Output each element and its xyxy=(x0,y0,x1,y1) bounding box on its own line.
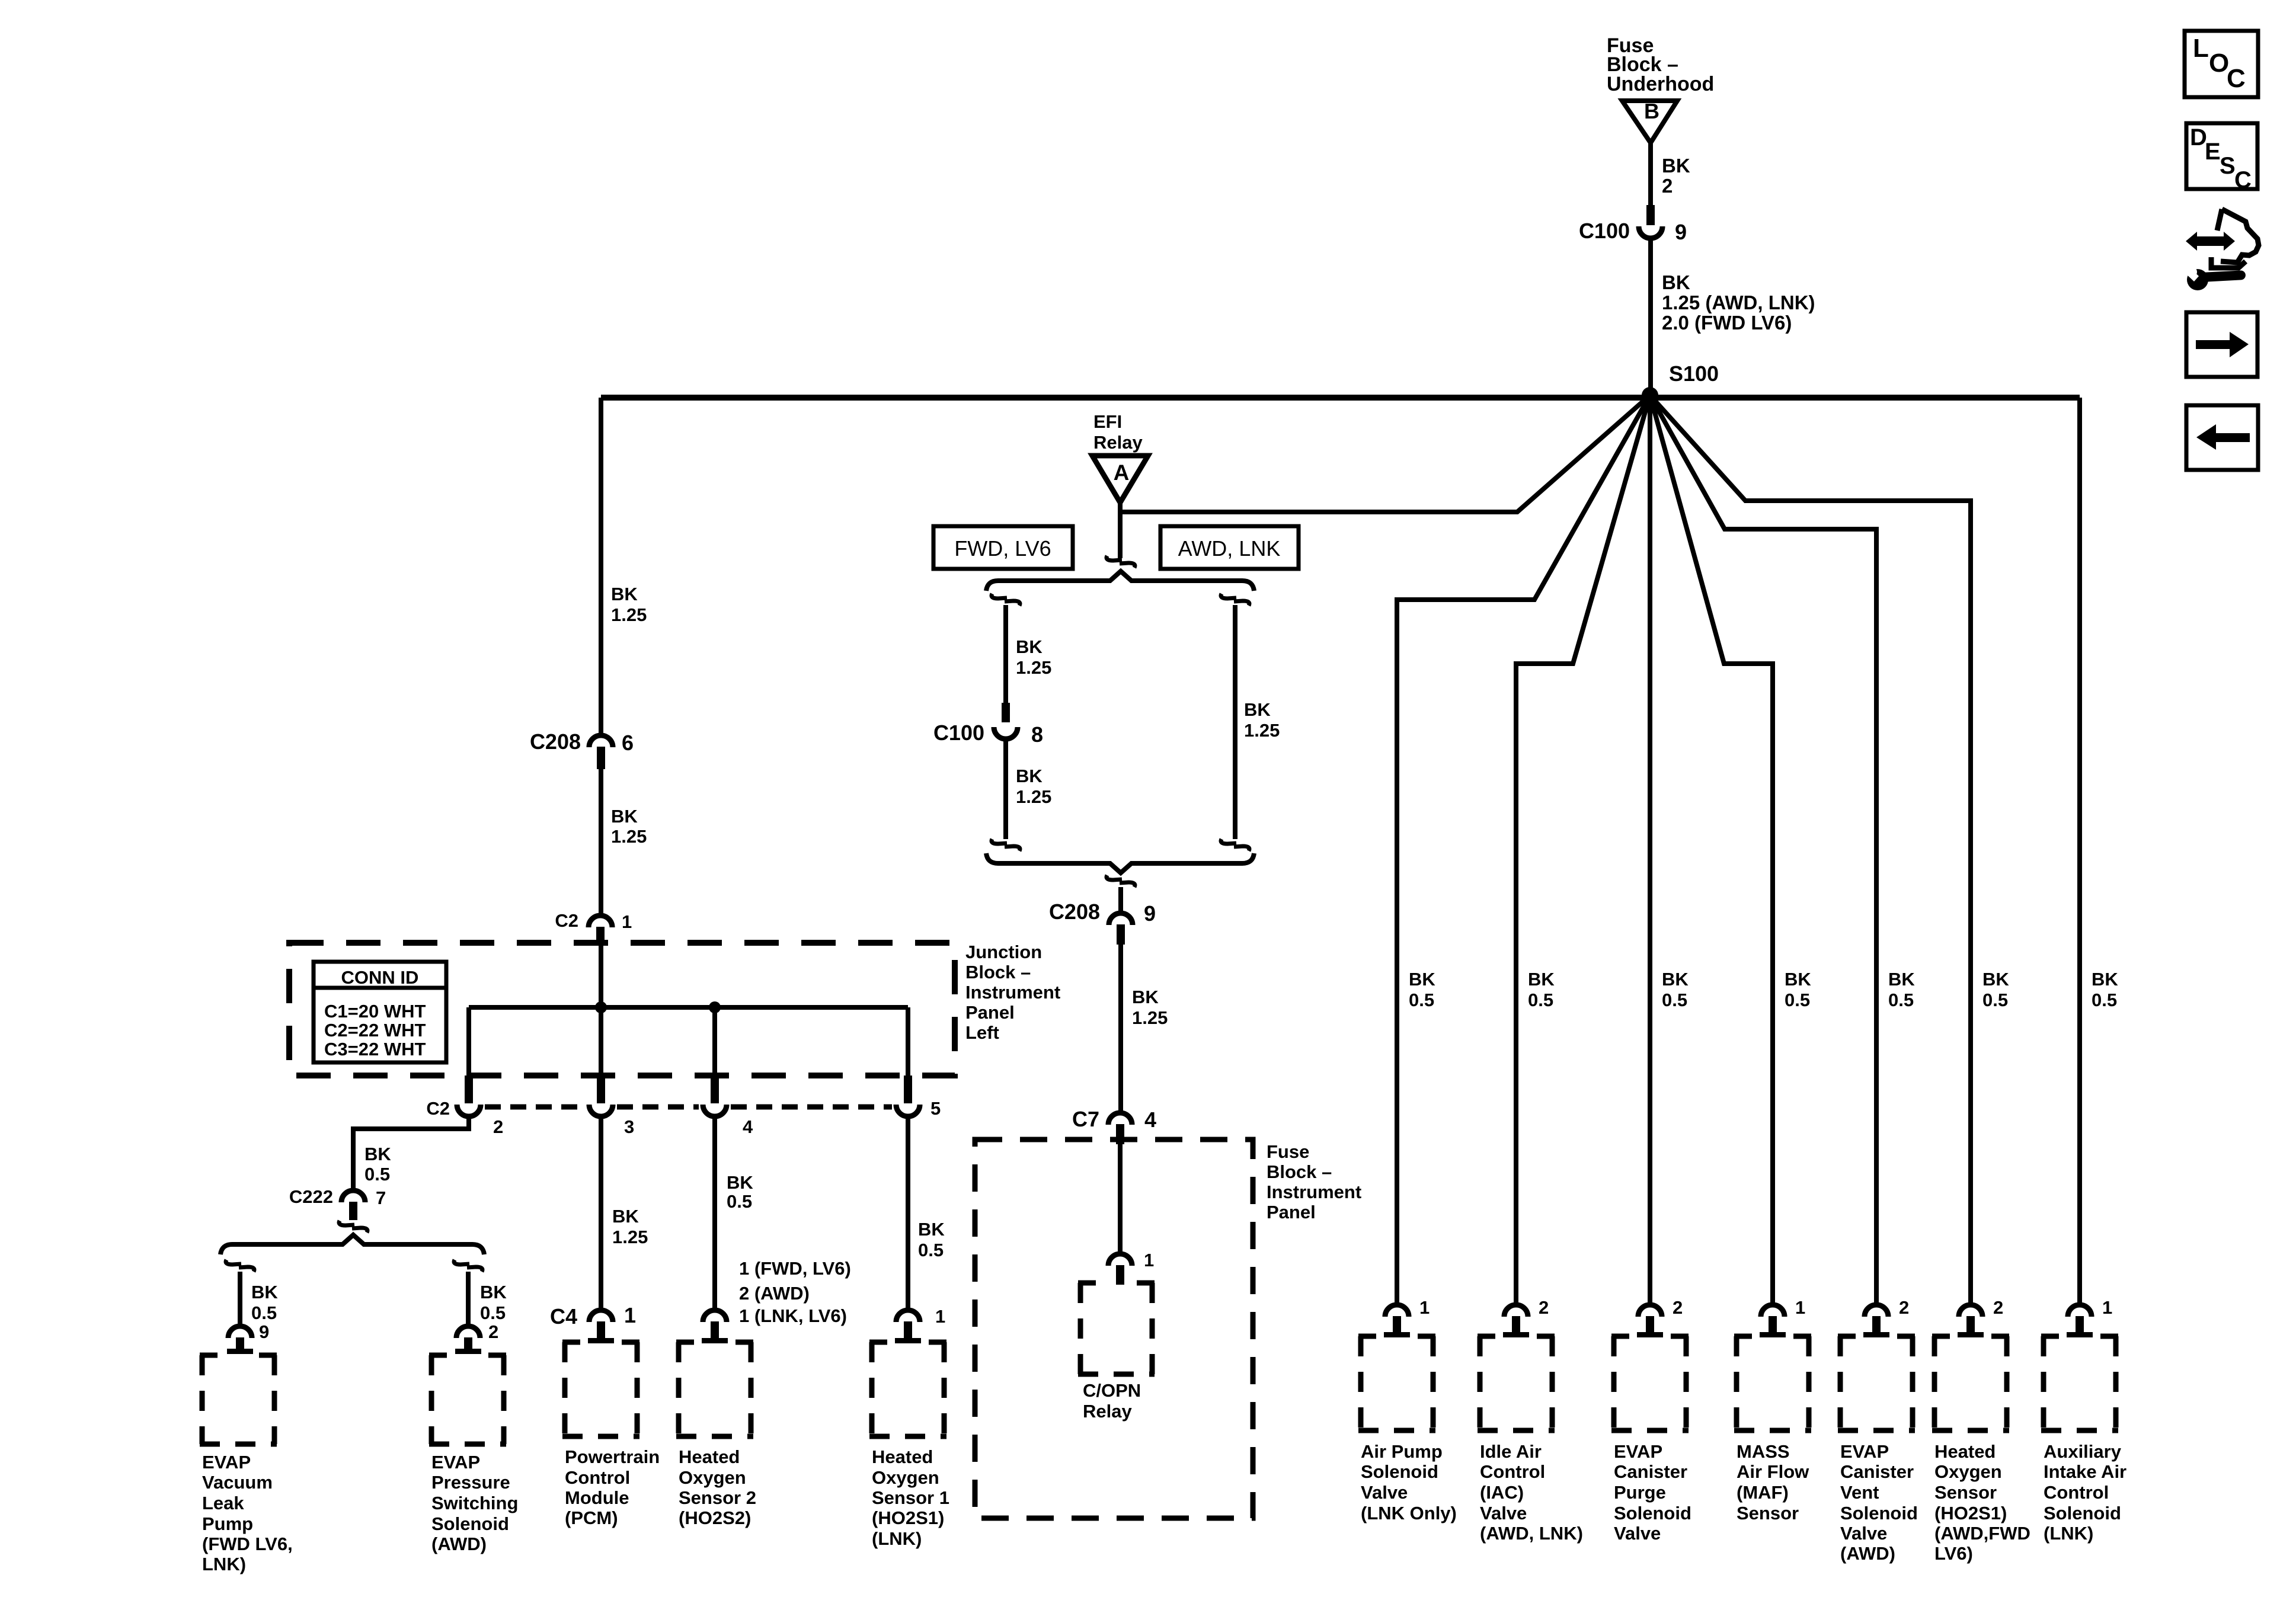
wire label BK 0.5 9 xyxy=(251,1282,278,1342)
label EVAP Pressure Switching Solenoid xyxy=(431,1452,518,1554)
svg-text:BK: BK xyxy=(611,584,638,604)
svg-text:Instrument: Instrument xyxy=(965,982,1060,1003)
connector pin 1 col 3509 xyxy=(2067,1297,2112,1337)
svg-text:Solenoid: Solenoid xyxy=(1614,1503,1691,1523)
pin 5 xyxy=(930,1098,941,1119)
svg-text:Purge: Purge xyxy=(1614,1482,1666,1503)
wire C100-9 to S100, BK 1.25/2.0 xyxy=(1648,241,1653,395)
svg-text:(IAC): (IAC) xyxy=(1480,1482,1524,1503)
svg-text:C7: C7 xyxy=(1072,1107,1099,1131)
svg-text:LNK): LNK) xyxy=(202,1554,246,1574)
EVAP vacuum leak pump box xyxy=(200,1355,277,1444)
connector C7 pin 4 xyxy=(1072,1107,1156,1144)
wire label BK 0.5 HO2S1 xyxy=(918,1219,945,1260)
wire label BK 0.5 col 3509 xyxy=(2092,969,2118,1010)
svg-text:B: B xyxy=(1644,99,1659,123)
wire label BK 1.25 below C208-6 xyxy=(611,806,647,847)
svg-text:2: 2 xyxy=(488,1321,498,1342)
label C2 of row xyxy=(426,1098,450,1119)
wire label BK 1.25 FWD lower xyxy=(1016,766,1051,807)
svg-text:(AWD): (AWD) xyxy=(431,1534,487,1554)
svg-text:Panel: Panel xyxy=(1267,1202,1316,1222)
junction node at x1014 xyxy=(595,1001,607,1013)
connector pin 2 col 2784 xyxy=(1637,1297,1683,1337)
wire C7-4 to relay coil xyxy=(1118,1144,1123,1253)
wire label BK 0.5 col 2558 xyxy=(1528,969,1555,1010)
component box col 3166 xyxy=(1838,1336,1915,1430)
wire C2-5 to HO2S1 xyxy=(906,1119,910,1308)
svg-text:7: 7 xyxy=(376,1188,386,1208)
wire relay A down to option marker xyxy=(1118,502,1123,558)
connector C100 pin 8 xyxy=(933,703,1043,747)
icon box LOC xyxy=(2185,31,2258,97)
svg-text:5: 5 xyxy=(930,1098,941,1119)
connector HO2S1 pin 1 xyxy=(895,1306,945,1343)
svg-text:BK: BK xyxy=(1785,969,1811,990)
connector C4 pin 1 xyxy=(550,1303,636,1343)
svg-text:BK: BK xyxy=(1016,636,1043,657)
HO2S1 box xyxy=(869,1342,946,1436)
wire C208-9 to C7-4 xyxy=(1118,945,1123,1112)
icon wrench with arrows xyxy=(2183,209,2259,290)
wire S100 to IAC column xyxy=(1516,395,1650,1305)
svg-text:Control: Control xyxy=(1480,1461,1545,1482)
alternatives brace top xyxy=(986,571,1254,591)
wire label BK 0.5 HO2S2 xyxy=(727,1172,753,1212)
svg-text:Junction: Junction xyxy=(965,942,1042,962)
svg-text:BK: BK xyxy=(1409,969,1435,990)
svg-text:0.5: 0.5 xyxy=(1528,990,1553,1010)
svg-text:Sensor 1: Sensor 1 xyxy=(872,1487,949,1508)
svg-text:BK: BK xyxy=(480,1282,507,1302)
connector C208 pin 9 xyxy=(1049,900,1156,945)
option marker above C208-9 xyxy=(1107,875,1135,887)
connector EVAP pump pin 9 xyxy=(227,1326,253,1354)
svg-text:Powertrain: Powertrain xyxy=(565,1446,660,1467)
svg-text:C2=22 WHT: C2=22 WHT xyxy=(324,1020,426,1041)
svg-text:Underhood: Underhood xyxy=(1607,73,1714,95)
svg-text:C3=22 WHT: C3=22 WHT xyxy=(324,1039,426,1060)
svg-text:Control: Control xyxy=(2044,1482,2109,1503)
connector pin 2 col 2558 xyxy=(1503,1297,1549,1337)
svg-text:Pressure: Pressure xyxy=(431,1472,510,1493)
svg-text:4: 4 xyxy=(1144,1108,1156,1132)
svg-text:A: A xyxy=(1114,460,1130,485)
off-page triangle B (Fuse Block - Underhood) xyxy=(1622,99,1677,143)
svg-text:BK: BK xyxy=(1016,766,1043,786)
svg-text:Relay: Relay xyxy=(1083,1401,1132,1422)
svg-text:(LNK): (LNK) xyxy=(2044,1523,2093,1544)
wire label BK 0.5 col 2991 xyxy=(1785,969,1811,1010)
svg-text:(PCM): (PCM) xyxy=(565,1507,618,1528)
svg-text:Instrument: Instrument xyxy=(1267,1182,1361,1202)
svg-text:Heated: Heated xyxy=(679,1446,740,1467)
svg-text:BK: BK xyxy=(612,1206,639,1227)
wire S100 to C208 pin 6 xyxy=(599,398,603,734)
label Junction Block - Instrument Panel Left xyxy=(965,942,1060,1043)
component box col 2991 xyxy=(1734,1336,1811,1430)
svg-text:1.25: 1.25 xyxy=(1132,1007,1168,1028)
svg-text:Valve: Valve xyxy=(1614,1523,1661,1544)
wire C208-6 to C2-1 xyxy=(599,769,603,914)
connector C100 pin 9 xyxy=(1579,205,1687,244)
connector C2 row blade x1206 xyxy=(703,1076,727,1116)
wire label BK 1.25 to C7 xyxy=(1132,987,1168,1028)
svg-text:BK: BK xyxy=(918,1219,945,1240)
svg-text:BK: BK xyxy=(1662,155,1690,177)
svg-text:0.5: 0.5 xyxy=(1888,990,1914,1010)
svg-text:Heated: Heated xyxy=(1934,1441,1996,1462)
svg-text:Intake Air: Intake Air xyxy=(2044,1461,2126,1482)
label Heated col 3325 xyxy=(1934,1441,2030,1564)
svg-text:9: 9 xyxy=(1675,220,1687,244)
svg-text:Air Flow: Air Flow xyxy=(1737,1461,1809,1482)
svg-text:(HO2S1): (HO2S1) xyxy=(1934,1503,2007,1523)
svg-text:C4: C4 xyxy=(550,1304,577,1329)
svg-text:Sensor: Sensor xyxy=(1737,1503,1799,1523)
connector C222 pin 7 xyxy=(289,1186,386,1220)
svg-text:Control: Control xyxy=(565,1467,630,1488)
svg-text:Canister: Canister xyxy=(1840,1461,1914,1482)
option marker FWD branch bottom xyxy=(992,839,1020,851)
connector C2 pin 1 xyxy=(555,910,632,943)
dashed link of connector C2 row xyxy=(485,1105,892,1110)
svg-text:Sensor: Sensor xyxy=(1934,1482,1997,1503)
svg-text:0.5: 0.5 xyxy=(1409,990,1434,1010)
svg-text:2.0 (FWD LV6): 2.0 (FWD LV6) xyxy=(1662,312,1792,334)
connector C208 pin 6 xyxy=(530,729,634,769)
svg-text:BK: BK xyxy=(1528,969,1555,990)
svg-text:C2: C2 xyxy=(555,910,578,931)
splice brace under C222 xyxy=(220,1235,484,1254)
svg-text:S: S xyxy=(2220,153,2236,179)
svg-text:BK: BK xyxy=(2092,969,2118,990)
wire label BK 1.25 AWD xyxy=(1244,699,1280,741)
svg-text:CONN ID: CONN ID xyxy=(341,967,419,988)
wire label BK 0.5 col 2784 xyxy=(1662,969,1689,1010)
svg-text:BK: BK xyxy=(1662,271,1690,293)
svg-text:C: C xyxy=(2234,167,2252,193)
svg-text:S100: S100 xyxy=(1669,361,1719,386)
svg-text:Canister: Canister xyxy=(1614,1461,1687,1482)
svg-text:(MAF): (MAF) xyxy=(1737,1482,1789,1503)
label EVAP Vacuum Leak Pump xyxy=(202,1452,293,1574)
label Fuse Block - Underhood xyxy=(1607,34,1714,95)
label Heated Oxygen Sensor 2 (HO2S2) xyxy=(679,1446,756,1528)
off-page triangle A (EFI Relay) xyxy=(1092,456,1148,502)
svg-text:2: 2 xyxy=(1993,1297,2003,1318)
svg-text:8: 8 xyxy=(1031,722,1043,747)
wire label BK 1.25 (AWD, LNK) 2.0 (FWD LV6) xyxy=(1662,271,1815,334)
pin 3 xyxy=(624,1116,634,1137)
label EVAP col 3166 xyxy=(1840,1441,1918,1564)
svg-text:Solenoid: Solenoid xyxy=(1361,1461,1438,1482)
svg-text:EVAP: EVAP xyxy=(431,1452,480,1473)
svg-text:2: 2 xyxy=(1662,175,1673,197)
svg-text:BK: BK xyxy=(1132,987,1159,1007)
svg-text:1: 1 xyxy=(622,911,632,932)
svg-text:EVAP: EVAP xyxy=(202,1452,251,1473)
connector pin 1 col 2991 xyxy=(1760,1297,1805,1337)
svg-text:2: 2 xyxy=(1539,1297,1549,1318)
wire S100 to auxiliary column xyxy=(2077,398,2082,1305)
icon box DESC xyxy=(2186,123,2257,193)
wire S100 to air pump column xyxy=(1397,395,1650,1305)
AWD, LNK box xyxy=(1160,526,1299,569)
svg-text:1.25: 1.25 xyxy=(1016,786,1051,807)
svg-text:1 (LNK, LV6): 1 (LNK, LV6) xyxy=(739,1305,847,1326)
svg-text:1.25: 1.25 xyxy=(1244,720,1280,741)
svg-text:Sensor 2: Sensor 2 xyxy=(679,1487,756,1508)
svg-text:9: 9 xyxy=(1144,901,1156,926)
svg-text:0.5: 0.5 xyxy=(1785,990,1810,1010)
wire label BK 0.5 2 xyxy=(480,1282,507,1342)
svg-text:BK: BK xyxy=(1982,969,2009,990)
option marker AWD branch bottom xyxy=(1221,839,1249,851)
alternatives brace bottom xyxy=(986,853,1254,873)
svg-text:Valve: Valve xyxy=(1840,1523,1887,1544)
svg-text:9: 9 xyxy=(259,1321,269,1342)
HO2S2 box xyxy=(676,1342,753,1436)
connector pin 1 col 2357 xyxy=(1384,1297,1430,1337)
svg-text:Fuse: Fuse xyxy=(1267,1141,1309,1162)
bus wire from S100 left and right xyxy=(601,395,2080,401)
svg-text:1: 1 xyxy=(935,1306,945,1327)
svg-text:(HO2S1): (HO2S1) xyxy=(872,1507,944,1528)
svg-text:EVAP: EVAP xyxy=(1840,1441,1889,1462)
svg-text:Switching: Switching xyxy=(431,1493,518,1513)
wire bus drop x1206 xyxy=(712,1007,717,1076)
svg-text:BK: BK xyxy=(1888,969,1915,990)
CONN ID table xyxy=(314,962,446,1062)
svg-text:2: 2 xyxy=(1673,1297,1683,1318)
wire bus drop x1532 xyxy=(906,1007,910,1076)
icon box arrow right xyxy=(2186,312,2257,377)
label Auxiliary col 3509 xyxy=(2044,1441,2126,1544)
svg-text:Block –: Block – xyxy=(1267,1161,1332,1182)
svg-text:Pump: Pump xyxy=(202,1513,253,1534)
svg-text:2 (AWD): 2 (AWD) xyxy=(739,1283,810,1304)
component box col 3325 xyxy=(1932,1336,2009,1430)
component box col 2558 xyxy=(1478,1336,1555,1430)
svg-text:AWD, LNK: AWD, LNK xyxy=(1178,536,1281,561)
svg-text:0.5: 0.5 xyxy=(2092,990,2117,1010)
svg-text:C208: C208 xyxy=(530,729,581,754)
wire label BK 1.25 xyxy=(611,584,647,625)
svg-text:Solenoid: Solenoid xyxy=(2044,1503,2121,1523)
svg-text:0.5: 0.5 xyxy=(727,1191,752,1212)
pin list for HO2S2 xyxy=(739,1258,851,1326)
svg-text:0.5: 0.5 xyxy=(480,1302,506,1323)
svg-text:L: L xyxy=(2193,34,2209,63)
svg-text:(LNK): (LNK) xyxy=(872,1528,922,1549)
svg-text:1: 1 xyxy=(1795,1297,1805,1318)
svg-text:0.5: 0.5 xyxy=(364,1164,390,1185)
connector pin 2 col 3166 xyxy=(1863,1297,1909,1337)
svg-text:(HO2S2): (HO2S2) xyxy=(679,1507,751,1528)
svg-text:(AWD, LNK): (AWD, LNK) xyxy=(1480,1523,1583,1544)
svg-text:LV6): LV6) xyxy=(1934,1543,1973,1564)
wire to EVAP vacuum leak pump xyxy=(238,1272,242,1325)
svg-text:BK: BK xyxy=(1662,969,1689,990)
svg-text:Oxygen: Oxygen xyxy=(679,1467,746,1488)
wire label BK 2 xyxy=(1662,155,1690,197)
svg-text:Vent: Vent xyxy=(1840,1482,1879,1503)
option marker FWD branch top xyxy=(992,594,1020,606)
option marker below C222 xyxy=(339,1221,367,1233)
svg-text:1: 1 xyxy=(2102,1297,2112,1318)
connector C2 row blade x791 xyxy=(457,1076,481,1116)
svg-text:1.25: 1.25 xyxy=(611,826,647,847)
wire S100 to EFI relay column xyxy=(1121,395,1650,512)
svg-text:C: C xyxy=(2227,64,2246,93)
svg-text:Valve: Valve xyxy=(1361,1482,1408,1503)
wire label BK 0.5 col 3325 xyxy=(1982,969,2009,1010)
component box col 2784 xyxy=(1611,1336,1689,1430)
wire label BK 0.5 col 2357 xyxy=(1409,969,1435,1010)
svg-text:Solenoid: Solenoid xyxy=(431,1513,509,1534)
svg-text:BK: BK xyxy=(1244,699,1271,720)
label Powertrain Control Module (PCM) xyxy=(565,1446,660,1528)
svg-text:Block –: Block – xyxy=(965,962,1031,982)
svg-text:Panel: Panel xyxy=(965,1002,1015,1023)
wire C2-1 through bus to row xyxy=(599,943,603,1076)
pin 4 xyxy=(743,1116,753,1137)
svg-text:Relay: Relay xyxy=(1093,432,1143,453)
EVAP pressure switching solenoid box xyxy=(429,1355,506,1444)
PCM box xyxy=(562,1342,639,1436)
svg-text:BK: BK xyxy=(251,1282,278,1302)
svg-text:Module: Module xyxy=(565,1487,629,1508)
connector HO2S2 pin xyxy=(702,1310,728,1343)
label EVAP col 2784 xyxy=(1614,1441,1691,1544)
label Idle Air col 2558 xyxy=(1480,1441,1583,1544)
wire label BK 0.5 col 3166 xyxy=(1888,969,1915,1010)
svg-text:1.25: 1.25 xyxy=(611,604,647,625)
C/OPN relay box xyxy=(1078,1283,1155,1374)
svg-text:MASS: MASS xyxy=(1737,1441,1790,1462)
wire bus drop x791 xyxy=(466,1007,471,1076)
FWD, LV6 box xyxy=(933,526,1073,569)
junction block dashed outline xyxy=(289,943,955,1076)
splice S100 xyxy=(1642,387,1658,404)
wire S100 to HO2S1 column xyxy=(1650,395,1971,1305)
label C/OPN Relay xyxy=(1083,1380,1141,1422)
svg-text:1 (FWD, LV6): 1 (FWD, LV6) xyxy=(739,1258,851,1279)
wire label BK 0.5 xyxy=(364,1144,391,1185)
svg-text:Heated: Heated xyxy=(872,1446,933,1467)
svg-text:C/OPN: C/OPN xyxy=(1083,1380,1141,1401)
label EFI Relay xyxy=(1093,411,1143,453)
wire S100 to EVAP vent column xyxy=(1650,395,1876,1305)
icon box arrow left xyxy=(2186,405,2258,470)
wire to C208 pin 9 xyxy=(1118,887,1123,912)
connector pin 2 col 3325 xyxy=(1958,1297,2003,1337)
svg-text:C208: C208 xyxy=(1049,900,1100,924)
label Heated Oxygen Sensor 1 (HO2S1) (LNK) xyxy=(872,1446,949,1549)
connector relay coil pin 1 xyxy=(1108,1250,1154,1285)
svg-text:Air Pump: Air Pump xyxy=(1361,1441,1443,1462)
svg-text:1.25: 1.25 xyxy=(1016,657,1051,678)
svg-text:Solenoid: Solenoid xyxy=(1840,1503,1918,1523)
svg-text:(FWD LV6,: (FWD LV6, xyxy=(202,1534,293,1554)
pin 2 xyxy=(493,1116,503,1137)
option marker right EVAP branch xyxy=(454,1260,482,1272)
svg-text:1.25: 1.25 xyxy=(612,1227,648,1247)
wire FWD branch lower xyxy=(1003,741,1008,839)
svg-text:Vacuum: Vacuum xyxy=(202,1472,273,1493)
svg-text:1: 1 xyxy=(1419,1297,1430,1318)
svg-text:C222: C222 xyxy=(289,1186,333,1207)
svg-text:Idle Air: Idle Air xyxy=(1480,1441,1542,1462)
svg-text:EFI: EFI xyxy=(1093,411,1122,432)
wire label BK 1.25 to PCM xyxy=(612,1206,648,1247)
svg-text:1: 1 xyxy=(624,1303,636,1327)
wire AWD branch xyxy=(1233,605,1237,839)
svg-text:BK: BK xyxy=(364,1144,391,1164)
svg-text:0.5: 0.5 xyxy=(251,1302,277,1323)
label S100 xyxy=(1669,361,1719,386)
connector EVAP solenoid pin 2 xyxy=(455,1326,481,1354)
svg-text:1: 1 xyxy=(1144,1250,1154,1270)
svg-text:0.5: 0.5 xyxy=(918,1240,944,1260)
svg-text:E: E xyxy=(2205,139,2221,165)
svg-text:3: 3 xyxy=(624,1116,634,1137)
svg-text:BK: BK xyxy=(727,1172,753,1193)
junction block internal bus xyxy=(469,1005,908,1010)
connector C2 row blade x1532 xyxy=(896,1076,920,1116)
svg-text:FWD, LV6: FWD, LV6 xyxy=(954,536,1051,561)
svg-text:4: 4 xyxy=(743,1116,753,1137)
svg-text:0.5: 0.5 xyxy=(1662,990,1687,1010)
svg-text:Oxygen: Oxygen xyxy=(872,1467,939,1488)
wire FWD branch upper xyxy=(1003,605,1008,704)
component box col 2357 xyxy=(1358,1336,1435,1430)
svg-text:C100: C100 xyxy=(933,721,984,745)
svg-text:Left: Left xyxy=(965,1022,999,1043)
wire S100 to EVAP purge column xyxy=(1648,395,1652,1305)
svg-text:0.5: 0.5 xyxy=(1982,990,2008,1010)
svg-text:C100: C100 xyxy=(1579,219,1630,243)
svg-text:(AWD,FWD: (AWD,FWD xyxy=(1934,1523,2030,1544)
wire C2-4 to HO2S2 xyxy=(712,1119,717,1308)
wire C2-3 to C4-1 xyxy=(599,1119,603,1308)
option marker AWD branch top xyxy=(1221,594,1249,606)
junction node at x1206 xyxy=(709,1001,721,1013)
svg-text:2: 2 xyxy=(1899,1297,1909,1318)
option marker below relay A xyxy=(1107,556,1135,568)
svg-text:C2: C2 xyxy=(426,1098,450,1119)
option marker left EVAP branch xyxy=(226,1260,254,1272)
svg-text:6: 6 xyxy=(622,731,634,755)
wire C2-2 to C222 xyxy=(353,1119,469,1189)
label Air Pump col 2357 xyxy=(1361,1441,1457,1523)
svg-text:1.25 (AWD, LNK): 1.25 (AWD, LNK) xyxy=(1662,292,1815,313)
wire label BK 1.25 FWD upper xyxy=(1016,636,1051,678)
svg-text:Valve: Valve xyxy=(1480,1503,1527,1523)
svg-text:BK: BK xyxy=(611,806,638,827)
svg-text:(AWD): (AWD) xyxy=(1840,1543,1895,1564)
wire S100 to MAF column xyxy=(1650,395,1773,1305)
svg-text:EVAP: EVAP xyxy=(1614,1441,1662,1462)
svg-text:2: 2 xyxy=(493,1116,503,1137)
label Fuse Block - Instrument Panel xyxy=(1267,1141,1361,1222)
component box col 3509 xyxy=(2041,1336,2118,1430)
connector C2 row blade x1014 xyxy=(589,1076,613,1116)
svg-text:(LNK Only): (LNK Only) xyxy=(1361,1503,1457,1523)
svg-text:C1=20 WHT: C1=20 WHT xyxy=(324,1001,426,1022)
svg-text:Oxygen: Oxygen xyxy=(1934,1461,2002,1482)
